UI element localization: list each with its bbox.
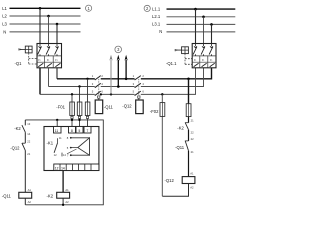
- junction dot fuse F01/1 tap: [71, 93, 73, 95]
- svg-text:22: 22: [191, 137, 194, 141]
- node L3.1 label: [152, 22, 161, 27]
- contact K2 NC 21-22: [185, 119, 194, 135]
- wire row L2 middle segment: [101, 86, 135, 88]
- relay K1 label: [47, 140, 54, 145]
- svg-text:12: 12: [54, 153, 57, 157]
- outgoing feeder arrow 3: [125, 55, 128, 79]
- wire L3 to Q1 pole 3: [56, 24, 58, 44]
- fuse F01/1: [70, 94, 75, 126]
- junction dot L2: [47, 15, 50, 18]
- breaker Q1.1 pole 3 contact: [209, 44, 213, 56]
- fuse F02 label: [150, 109, 159, 114]
- circled number 1: [86, 5, 92, 11]
- svg-text:14: 14: [63, 153, 66, 157]
- svg-text:11: 11: [55, 129, 59, 133]
- svg-text:14: 14: [27, 132, 30, 136]
- contactor Q12 pole 1 contact: [133, 74, 145, 80]
- svg-text:-F01: -F01: [56, 104, 65, 109]
- wire L1 to Q1 pole 1: [39, 8, 41, 43]
- wire control loop 1: [25, 120, 103, 205]
- svg-text:21: 21: [27, 152, 30, 156]
- junction dot fuse F01/3 tap: [86, 78, 88, 80]
- wire to coil Q11: [24, 150, 26, 192]
- relay K1 terminal 8: [69, 127, 76, 134]
- breaker Q1.1 mechanical linkage (dashed): [185, 54, 192, 65]
- svg-text:-K1: -K1: [47, 140, 54, 145]
- svg-text:-Q12: -Q12: [165, 178, 175, 183]
- svg-text:I>: I>: [202, 58, 205, 62]
- svg-text:13: 13: [27, 122, 30, 126]
- wire L1.1 to Q1.1 pole 1: [195, 9, 197, 43]
- wire Q1 pole 1 down: [39, 68, 41, 95]
- svg-text:L1.1: L1.1: [152, 6, 161, 11]
- wire N supply 2: [167, 31, 236, 33]
- wire control tap 2 down: [188, 79, 190, 104]
- svg-text:L2: L2: [2, 14, 7, 19]
- wire L2: [10, 15, 81, 17]
- contact Q12 NC 22-21: [22, 139, 31, 156]
- svg-text:12: 12: [55, 166, 59, 170]
- junction dot Q11 drive tap: [100, 93, 102, 95]
- wire Q1 pole 2 down: [48, 68, 50, 87]
- svg-text:-F02: -F02: [150, 109, 159, 114]
- junction dot L2.1: [202, 15, 205, 18]
- wire L3.1: [167, 23, 236, 25]
- contactor Q12 label: [122, 104, 132, 109]
- coil Q12: [182, 171, 195, 189]
- breaker Q1.1 body: [192, 44, 216, 68]
- wire N: [10, 31, 81, 33]
- contactor Q12 terminal square: [138, 96, 140, 100]
- contact Q11 NC 22-21: [185, 137, 194, 154]
- breaker Q1.1 handle: [182, 47, 189, 54]
- svg-text:11: 11: [59, 136, 62, 140]
- wire L3: [10, 23, 81, 25]
- junction dot L3: [56, 23, 59, 26]
- junction dot outgoing 1: [110, 93, 112, 95]
- svg-text:-K2: -K2: [14, 126, 21, 131]
- junction dot L1.1: [194, 8, 197, 11]
- wire contact K2 to contact Q11: [188, 130, 190, 141]
- junction dot control tap 2: [187, 78, 190, 81]
- wire row L1 middle segment: [101, 93, 135, 95]
- wire row L1 left segment: [40, 93, 95, 95]
- svg-text:L1: L1: [2, 6, 7, 11]
- contactor Q12 linkage (dashed): [138, 77, 140, 96]
- junction dot fuse F01/1 bottom: [71, 119, 73, 121]
- svg-text:-Q11: -Q11: [104, 104, 114, 109]
- svg-text:A1: A1: [190, 171, 194, 175]
- fuse F02b: [186, 104, 191, 117]
- svg-text:22: 22: [27, 139, 30, 143]
- contact Q11 label right: [175, 145, 185, 150]
- junction dot coil K2 bus: [62, 204, 64, 206]
- svg-text:A2: A2: [65, 200, 69, 204]
- wire L1: [10, 7, 81, 9]
- wire row L2 right segment: [141, 68, 204, 87]
- svg-text:-Q1.1: -Q1.1: [166, 61, 177, 66]
- contact K2 label right: [177, 126, 184, 131]
- junction dot L1: [39, 7, 42, 10]
- junction dot fuse F01/2 tap: [78, 85, 80, 87]
- svg-text:L3.1: L3.1: [152, 22, 161, 27]
- contactor Q11 pole 1 contact: [92, 74, 104, 80]
- wire row L3 left segment: [57, 78, 95, 80]
- fuse F02a: [160, 94, 165, 196]
- contactor Q11 pole 2 contact: [92, 82, 104, 88]
- wire L2 to Q1 pole 2: [48, 16, 50, 44]
- relay K1 changeover contact: [54, 136, 67, 157]
- relay K1 terminal 7: [84, 127, 91, 134]
- wire L2.1: [167, 16, 236, 18]
- wire to relay terminal 11: [56, 120, 58, 127]
- wire L1.1: [167, 8, 236, 10]
- node L2.1 label: [152, 14, 161, 19]
- svg-text:L2.1: L2.1: [152, 14, 161, 19]
- breaker Q1 body: [37, 44, 62, 68]
- fuse F01 label: [56, 104, 65, 109]
- breaker Q1.1 handle arrow: [175, 49, 181, 51]
- contactor Q11 pole 3 contact: [92, 90, 104, 96]
- wire fuse F02b to contact K2: [188, 117, 190, 123]
- coil Q12 label: [165, 178, 175, 183]
- wire coil Q12 return: [162, 184, 188, 197]
- junction dot fuse F01/2 bottom: [78, 119, 80, 121]
- breaker Q1 handle: [25, 46, 32, 53]
- node N supply 2 label: [159, 29, 162, 34]
- svg-text:I>: I>: [47, 58, 50, 62]
- svg-text:-Q12: -Q12: [122, 104, 132, 109]
- breaker Q1 pole 1 contact: [38, 44, 42, 56]
- outgoing feeder arrow 2: [117, 55, 120, 87]
- svg-text:A1: A1: [28, 188, 32, 192]
- svg-text:-K2: -K2: [177, 126, 184, 131]
- breaker Q1.1 thermal releases: [194, 63, 215, 67]
- svg-text:I>: I>: [194, 58, 197, 62]
- svg-text:21: 21: [191, 150, 194, 154]
- wire contact Q11 to coil Q12: [188, 151, 190, 177]
- coil Q11 label: [2, 193, 12, 198]
- svg-text:I>: I>: [210, 58, 213, 62]
- svg-text:I>: I>: [55, 58, 58, 62]
- breaker Q1 overcurrent releases I>: [38, 58, 58, 62]
- svg-text:L3: L3: [2, 22, 7, 27]
- svg-text:-Q12: -Q12: [10, 146, 20, 151]
- svg-text:-Q11: -Q11: [175, 145, 185, 150]
- svg-text:22: 22: [191, 130, 194, 134]
- node L3 label: [2, 22, 7, 27]
- svg-text:-Q1: -Q1: [15, 61, 23, 66]
- svg-text:14: 14: [61, 166, 65, 170]
- contact Q12 label left: [10, 146, 20, 151]
- circled number 2: [144, 5, 150, 11]
- svg-text:8: 8: [71, 129, 73, 133]
- contactor Q12 pole 2 contact: [133, 82, 145, 88]
- breaker Q1 mechanical linkage (dashed): [29, 53, 37, 64]
- svg-text:7: 7: [87, 129, 89, 133]
- breaker Q1.1 overcurrent releases I>: [194, 58, 213, 62]
- svg-text:-Q11: -Q11: [2, 193, 12, 198]
- breaker Q1.1 pole 1 contact: [193, 44, 197, 56]
- svg-text:N: N: [159, 29, 162, 34]
- contactor Q12 pole 3 contact: [133, 90, 145, 96]
- svg-text:A2: A2: [190, 186, 194, 190]
- breaker Q1 label: [15, 61, 23, 66]
- wire row L1 right segment: [141, 68, 196, 95]
- breaker Q1 thermal releases: [38, 63, 60, 67]
- wire K2 to Q12 contact: [24, 132, 26, 143]
- junction dot relay terminal 11 tap: [56, 119, 58, 121]
- wire L2.1 to Q1.1 pole 2: [203, 17, 205, 44]
- svg-text:-K2: -K2: [47, 193, 54, 198]
- svg-text:21: 21: [191, 119, 194, 123]
- breaker Q1.1 pole 2 contact: [201, 44, 205, 56]
- wire coil K2 to bus: [62, 198, 64, 205]
- wire row L3 middle segment: [101, 78, 135, 80]
- contactor Q11 label: [104, 104, 114, 109]
- contactor Q11 drive: [95, 100, 103, 114]
- node L2 label: [2, 14, 7, 19]
- wire coil Q11 to bus: [24, 198, 26, 205]
- wire relay output 14 to coil K2: [62, 171, 64, 193]
- contact K2 label left: [14, 126, 21, 131]
- node L1 label: [2, 6, 7, 11]
- relay K1 terminal 11: [54, 127, 62, 134]
- breaker Q1 handle arrow: [19, 48, 25, 50]
- fuse F01/2: [77, 87, 82, 127]
- breaker Q1.1 label: [166, 61, 177, 66]
- wire Q1 pole 3 down: [56, 68, 58, 79]
- relay K1 terminal 5: [76, 127, 83, 134]
- contactor Q12 drive: [136, 100, 144, 114]
- coil Q11: [19, 188, 32, 204]
- coil K2: [57, 188, 70, 204]
- junction dot L3.1: [210, 23, 213, 26]
- node N label: [3, 30, 6, 35]
- coil K2 label: [47, 193, 54, 198]
- circled number 3: [115, 46, 122, 53]
- relay K1 measuring function symbol: [67, 136, 90, 157]
- junction dot fuse F02a tap: [161, 93, 163, 95]
- contactor Q11 terminal square: [98, 96, 100, 100]
- contact K2 NO 13-14: [22, 120, 31, 136]
- svg-text:A2: A2: [28, 200, 32, 204]
- relay K1 box: [44, 127, 99, 171]
- wire L3.1 to Q1.1 pole 3: [211, 24, 213, 43]
- breaker Q1 pole 2 contact: [46, 44, 50, 56]
- outgoing feeder arrow 1: [109, 55, 112, 95]
- junction dot outgoing 3: [125, 78, 128, 81]
- svg-text:N: N: [3, 30, 6, 35]
- relay K1 bottom terminal strip: [54, 164, 99, 171]
- svg-text:A1: A1: [65, 188, 69, 192]
- node L1.1 label: [152, 6, 161, 11]
- wire row L3 right segment: [141, 68, 212, 79]
- wire row L2 left segment: [49, 86, 95, 88]
- svg-text:I>: I>: [38, 58, 41, 62]
- svg-text:5: 5: [79, 129, 81, 133]
- contactor Q11 linkage (dashed): [98, 77, 100, 96]
- fuse F01/3: [85, 79, 90, 127]
- breaker Q1 pole 3 contact: [55, 44, 59, 56]
- junction dot outgoing 2: [117, 85, 120, 88]
